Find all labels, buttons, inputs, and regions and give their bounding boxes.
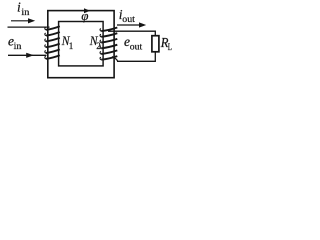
resistor R_L xyxy=(152,36,159,52)
svg-text:i: i xyxy=(17,0,21,15)
svg-text:2: 2 xyxy=(96,41,101,51)
wire: output top lead xyxy=(108,31,155,36)
svg-text:out: out xyxy=(122,15,135,25)
wire: input bottom lead with current arrow xyxy=(8,54,47,56)
svg-text:in: in xyxy=(21,8,29,18)
secondary winding N2 xyxy=(100,28,117,60)
i_out current arrow xyxy=(117,24,140,26)
svg-text:in: in xyxy=(14,42,22,52)
winding to bottom lead connector xyxy=(112,57,118,62)
i_in current arrow xyxy=(11,20,29,22)
transformer core inner rectangle xyxy=(59,22,104,66)
svg-text:L: L xyxy=(168,43,172,53)
primary winding N1 xyxy=(45,26,60,59)
svg-text:1: 1 xyxy=(69,41,74,51)
wire: input top lead xyxy=(8,26,50,28)
wire: output bottom lead xyxy=(117,52,155,62)
flux arrow on core top edge xyxy=(84,8,90,13)
transformer core outer rectangle xyxy=(48,11,114,78)
svg-text:out: out xyxy=(130,42,143,52)
svg-text:φ: φ xyxy=(81,8,88,23)
